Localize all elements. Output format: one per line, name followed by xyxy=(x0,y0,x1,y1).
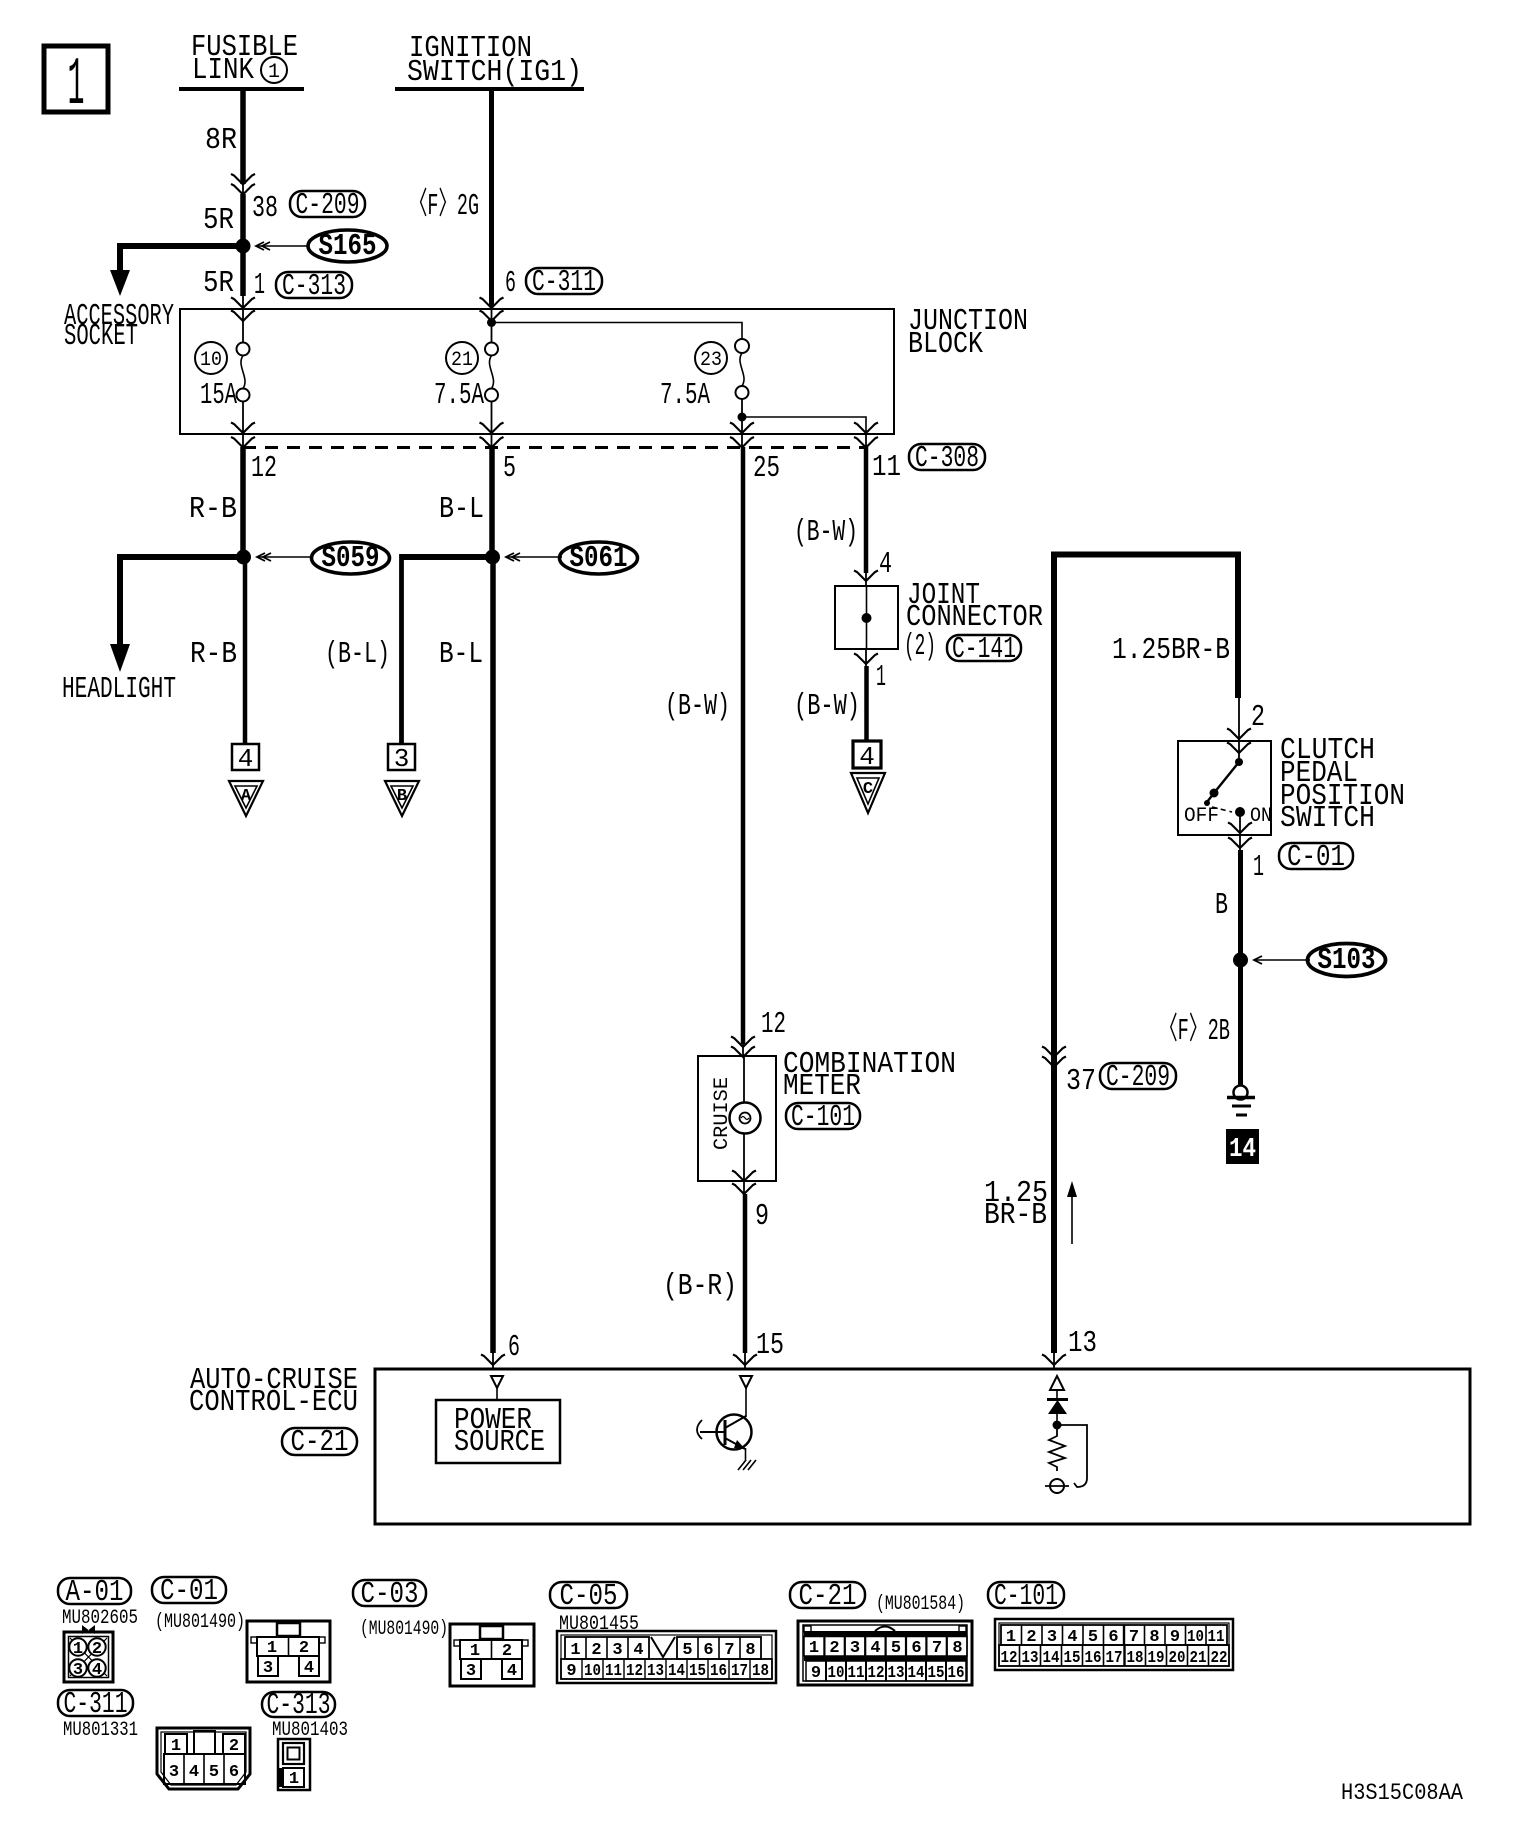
svg-text:3: 3 xyxy=(394,744,410,774)
wire to ECU pin 13 xyxy=(1042,1326,1097,1369)
label C-03 xyxy=(353,1577,448,1641)
svg-text:(B-L): (B-L) xyxy=(325,637,390,672)
svg-text:2: 2 xyxy=(92,1640,102,1659)
svg-text:13: 13 xyxy=(1068,1326,1097,1361)
svg-text:10: 10 xyxy=(200,349,222,372)
svg-text:21: 21 xyxy=(1190,1649,1207,1668)
splice label S059 xyxy=(257,541,390,576)
svg-text:12: 12 xyxy=(868,1664,885,1683)
junction node on ignition feed xyxy=(487,318,742,339)
svg-text:6: 6 xyxy=(508,1330,520,1365)
svg-text:S061: S061 xyxy=(570,541,628,576)
svg-text:B-L: B-L xyxy=(439,492,484,527)
label C-01 bottom xyxy=(152,1574,245,1634)
svg-text:12: 12 xyxy=(761,1007,786,1042)
label C-101 bottom xyxy=(988,1579,1064,1614)
svg-text:18: 18 xyxy=(752,1662,769,1681)
svg-text:C-05: C-05 xyxy=(560,1579,618,1614)
svg-text:7: 7 xyxy=(724,1641,734,1660)
svg-text:2: 2 xyxy=(1251,700,1265,735)
svg-text:C-101: C-101 xyxy=(791,1100,855,1135)
svg-text:C-141: C-141 xyxy=(952,632,1016,667)
connector crossing C-209 pin 38 chevrons xyxy=(231,174,278,226)
svg-text:8: 8 xyxy=(1149,1628,1159,1647)
svg-text:5: 5 xyxy=(1088,1628,1098,1647)
fuse 21 7.5A xyxy=(434,322,498,433)
svg-text:4: 4 xyxy=(1067,1628,1077,1647)
svg-text:15: 15 xyxy=(1064,1649,1081,1668)
svg-text:BR-B: BR-B xyxy=(984,1198,1047,1233)
svg-text:C-311: C-311 xyxy=(64,1687,128,1722)
svg-text:CONTROL-ECU: CONTROL-ECU xyxy=(189,1385,358,1420)
svg-text:3: 3 xyxy=(850,1639,860,1658)
svg-text:6: 6 xyxy=(505,266,516,301)
svg-text:12: 12 xyxy=(626,1662,643,1681)
svg-text:B: B xyxy=(397,787,407,806)
svg-text:16: 16 xyxy=(948,1664,965,1683)
wire A junction block entry chevrons xyxy=(231,295,255,342)
svg-text:8R: 8R xyxy=(205,123,237,158)
svg-text:6: 6 xyxy=(1108,1628,1118,1647)
svg-text:7: 7 xyxy=(1129,1628,1139,1647)
label C-21 bottom xyxy=(790,1579,965,1616)
svg-text:R-B: R-B xyxy=(190,637,237,672)
label C-01 xyxy=(1279,840,1353,875)
svg-text:R-B: R-B xyxy=(189,492,237,527)
svg-text:MU801455: MU801455 xyxy=(559,1613,639,1636)
svg-text:A-01: A-01 xyxy=(66,1575,124,1610)
svg-text:9: 9 xyxy=(755,1199,769,1234)
connector C-101 xyxy=(995,1619,1233,1670)
wire (B-L) branch to pin 3 xyxy=(325,554,492,744)
frame number box 1 xyxy=(44,46,108,124)
svg-text:C-03: C-03 xyxy=(361,1577,419,1612)
wire ignition switch 2G xyxy=(492,89,517,307)
wire 5R lower xyxy=(203,246,265,303)
cruise indicator lamp xyxy=(730,1057,761,1181)
svg-text:(MU801490): (MU801490) xyxy=(360,1618,448,1641)
label IGNITION SWITCH(IG1) xyxy=(395,31,584,90)
ECU pin 6 internal terminal xyxy=(491,1376,503,1388)
svg-text:11: 11 xyxy=(1208,1628,1225,1647)
fuse 10 15A xyxy=(195,342,250,433)
svg-text:2: 2 xyxy=(502,1642,512,1661)
node S103 xyxy=(1233,953,1248,968)
svg-text:12: 12 xyxy=(251,451,277,486)
terminal box 3 (circuit B) xyxy=(388,744,415,774)
svg-text:4: 4 xyxy=(189,1763,199,1782)
svg-text:8: 8 xyxy=(952,1639,962,1658)
svg-text:(B-W): (B-W) xyxy=(665,689,730,724)
svg-text:25: 25 xyxy=(753,451,780,486)
svg-text:SOURCE: SOURCE xyxy=(454,1425,545,1460)
label C-21 xyxy=(282,1425,357,1460)
svg-text:1: 1 xyxy=(1253,850,1264,885)
meter exit chevrons pin 9 xyxy=(732,1171,769,1235)
wire headlight branch xyxy=(62,554,243,707)
svg-text:3: 3 xyxy=(263,1659,273,1678)
svg-text:4: 4 xyxy=(304,1659,314,1678)
resistor R1 xyxy=(1049,1429,1065,1471)
svg-text:1: 1 xyxy=(809,1639,819,1658)
svg-text:11: 11 xyxy=(872,450,901,485)
wire accessory socket branch xyxy=(64,243,243,354)
svg-text:MU802605: MU802605 xyxy=(62,1607,138,1630)
svg-text:1: 1 xyxy=(171,1737,181,1756)
clutch pedal position switch entry pin 2 xyxy=(1227,697,1265,762)
label A-01 xyxy=(58,1575,138,1630)
ground symbol 14 xyxy=(1226,1086,1259,1166)
label C-311 xyxy=(526,265,602,300)
svg-text:4: 4 xyxy=(879,547,892,582)
svg-text:1: 1 xyxy=(267,1639,277,1658)
svg-text:1: 1 xyxy=(470,1642,480,1661)
svg-text:C-209: C-209 xyxy=(296,188,360,223)
value label 1.25 BR-B with flow arrow xyxy=(984,1176,1077,1244)
svg-text:A: A xyxy=(241,787,252,806)
svg-text:C-01: C-01 xyxy=(160,1574,218,1609)
wire (B-R) to ECU pin 15 xyxy=(663,1194,784,1369)
svg-text:9: 9 xyxy=(566,1662,576,1681)
svg-text:(B-W): (B-W) xyxy=(794,515,858,550)
splice label S103 xyxy=(1254,943,1386,978)
transistor Q1 xyxy=(697,1388,756,1470)
connector crossing C-209 pin 37 chevrons xyxy=(1042,1047,1096,1100)
wire B-L trunk to ECU pin 6 xyxy=(439,557,520,1369)
svg-text:14: 14 xyxy=(1043,1649,1060,1668)
svg-text:1: 1 xyxy=(73,1640,83,1659)
combination meter xyxy=(698,1047,956,1181)
svg-text:1: 1 xyxy=(1006,1628,1016,1647)
svg-text:1.25BR-B: 1.25BR-B xyxy=(1112,633,1230,668)
svg-text:〈F〉2B: 〈F〉2B xyxy=(1159,1013,1230,1049)
svg-text:20: 20 xyxy=(1169,1649,1186,1668)
svg-text:13: 13 xyxy=(1022,1649,1039,1668)
power source block xyxy=(436,1388,560,1463)
svg-text:3: 3 xyxy=(1047,1628,1057,1647)
node internal pull-up xyxy=(1053,1421,1062,1430)
svg-text:17: 17 xyxy=(731,1662,748,1681)
wire B to ground xyxy=(1159,850,1241,1086)
svg-text:11: 11 xyxy=(605,1662,622,1681)
svg-text:38: 38 xyxy=(252,191,278,226)
connector C-01 xyxy=(247,1621,330,1682)
svg-text:15: 15 xyxy=(928,1664,945,1683)
wire (B-W) to combination meter xyxy=(665,447,786,1057)
svg-text:4: 4 xyxy=(633,1641,643,1660)
svg-text:22: 22 xyxy=(1211,1649,1228,1668)
wire internal branch xyxy=(1057,1425,1087,1487)
svg-text:5: 5 xyxy=(891,1639,901,1658)
svg-text:13: 13 xyxy=(888,1664,905,1683)
svg-text:4: 4 xyxy=(238,744,254,774)
svg-text:10: 10 xyxy=(584,1662,601,1681)
fuse 23 7.5A xyxy=(660,339,749,433)
svg-text:6: 6 xyxy=(911,1639,921,1658)
svg-text:SWITCH: SWITCH xyxy=(1280,801,1375,836)
svg-text:14: 14 xyxy=(908,1664,925,1683)
svg-text:B-L: B-L xyxy=(439,637,483,672)
svg-text:〈F〉2G: 〈F〉2G xyxy=(409,188,479,224)
svg-text:C-21: C-21 xyxy=(799,1579,857,1614)
svg-text:S059: S059 xyxy=(322,541,380,576)
svg-text:9: 9 xyxy=(811,1664,821,1683)
svg-text:LINK: LINK xyxy=(192,53,254,88)
svg-text:14: 14 xyxy=(1229,1135,1256,1165)
svg-text:13: 13 xyxy=(647,1662,664,1681)
svg-text:7.5A: 7.5A xyxy=(434,378,484,413)
svg-text:METER: METER xyxy=(783,1069,861,1104)
svg-text:S165: S165 xyxy=(319,229,377,264)
svg-text:4: 4 xyxy=(870,1639,880,1658)
svg-text:7: 7 xyxy=(932,1639,942,1658)
terminal box 4 (circuit A) xyxy=(232,744,259,774)
svg-text:C-209: C-209 xyxy=(1106,1060,1170,1095)
svg-text:17: 17 xyxy=(1106,1649,1123,1668)
svg-text:21: 21 xyxy=(451,349,473,372)
svg-text:(MU801490): (MU801490) xyxy=(155,1611,245,1634)
svg-text:HEADLIGHT: HEADLIGHT xyxy=(62,672,176,707)
destination triangle C xyxy=(851,773,885,813)
connector C-313 xyxy=(278,1739,310,1790)
svg-text:MU801331: MU801331 xyxy=(63,1719,138,1742)
connector C-03 xyxy=(450,1624,534,1686)
diode D1 xyxy=(1047,1390,1068,1424)
svg-text:(2): (2) xyxy=(904,629,936,664)
connector C-311 xyxy=(157,1728,250,1789)
label C-308 xyxy=(909,441,985,476)
svg-text:2: 2 xyxy=(1026,1628,1036,1647)
wire B-L upper xyxy=(439,447,492,557)
wire R-B lower to pin 4 xyxy=(190,557,245,744)
svg-text:(MU801584): (MU801584) xyxy=(876,1593,965,1616)
svg-text:SOCKET: SOCKET xyxy=(64,319,138,354)
terminal circle xyxy=(1045,1479,1069,1493)
label C-313 xyxy=(276,269,352,304)
svg-text:2: 2 xyxy=(829,1639,839,1658)
connector C-21 xyxy=(798,1621,972,1685)
svg-text:C-313: C-313 xyxy=(282,269,346,304)
svg-text:C: C xyxy=(863,780,873,799)
auto-cruise control ECU box xyxy=(189,1363,1470,1524)
svg-text:3: 3 xyxy=(169,1763,179,1782)
wire 5R upper xyxy=(203,194,243,246)
svg-text:C-21: C-21 xyxy=(291,1425,349,1460)
svg-text:2: 2 xyxy=(591,1641,601,1660)
svg-text:23: 23 xyxy=(700,349,722,372)
svg-text:8: 8 xyxy=(745,1641,755,1660)
svg-text:5: 5 xyxy=(682,1641,692,1660)
destination triangle B xyxy=(385,781,419,816)
connector A-01 xyxy=(64,1625,113,1682)
label C-209 lower xyxy=(1100,1060,1176,1095)
svg-text:5: 5 xyxy=(503,451,516,486)
ECU pin 15 internal terminal xyxy=(740,1376,752,1388)
destination triangle A xyxy=(229,781,263,816)
svg-text:2: 2 xyxy=(229,1737,239,1756)
svg-text:15A: 15A xyxy=(200,378,237,413)
junction block connector dashed line xyxy=(243,446,866,449)
svg-text:15: 15 xyxy=(689,1662,706,1681)
svg-text:BLOCK: BLOCK xyxy=(908,327,983,362)
junction block xyxy=(180,304,1028,434)
svg-text:1: 1 xyxy=(68,47,85,124)
label C-311 bottom xyxy=(58,1687,138,1742)
svg-text:C-313: C-313 xyxy=(267,1688,331,1723)
svg-text:3: 3 xyxy=(73,1661,83,1680)
label C-313 bottom xyxy=(262,1688,348,1742)
clutch pedal position switch xyxy=(1178,733,1405,836)
label C-141 xyxy=(947,632,1021,667)
junction node below fuse 23 xyxy=(738,413,867,434)
svg-text:SWITCH(IG1): SWITCH(IG1) xyxy=(407,55,582,90)
svg-text:4: 4 xyxy=(859,742,875,772)
svg-text:C-101: C-101 xyxy=(994,1579,1058,1614)
svg-text:10: 10 xyxy=(828,1664,845,1683)
svg-text:16: 16 xyxy=(1085,1649,1102,1668)
splice label S061 xyxy=(506,541,638,576)
pin labels below junction block xyxy=(251,450,901,486)
svg-text:3: 3 xyxy=(466,1662,476,1681)
svg-text:H3S15C08AA: H3S15C08AA xyxy=(1341,1780,1463,1806)
svg-text:5R: 5R xyxy=(203,266,234,301)
svg-text:16: 16 xyxy=(710,1662,727,1681)
joint connector (2) C-141 xyxy=(835,578,1043,664)
splice label S165 xyxy=(256,229,387,264)
svg-text:2: 2 xyxy=(299,1639,309,1658)
clutch switch exit pin 1 xyxy=(1228,814,1264,885)
svg-text:15: 15 xyxy=(756,1328,784,1363)
svg-text:7.5A: 7.5A xyxy=(660,378,710,413)
junction block exit chevrons xyxy=(231,423,878,449)
svg-text:9: 9 xyxy=(1170,1628,1180,1647)
svg-text:3: 3 xyxy=(612,1641,622,1660)
svg-text:14: 14 xyxy=(668,1662,685,1681)
label C-101 xyxy=(786,1100,860,1135)
node S059 xyxy=(236,550,251,565)
svg-text:6: 6 xyxy=(229,1763,239,1782)
svg-text:1: 1 xyxy=(268,61,280,84)
svg-text:19: 19 xyxy=(1148,1649,1165,1668)
svg-text:C-01: C-01 xyxy=(1287,840,1345,875)
svg-text:11: 11 xyxy=(848,1664,865,1683)
svg-text:ON: ON xyxy=(1250,805,1272,828)
wire B junction block entry chevrons xyxy=(480,298,504,323)
svg-text:1: 1 xyxy=(876,660,886,695)
node S165 xyxy=(236,239,251,254)
svg-text:S103: S103 xyxy=(1318,943,1376,978)
svg-text:37: 37 xyxy=(1066,1064,1096,1099)
svg-text:C-311: C-311 xyxy=(532,265,596,300)
connector C-05 xyxy=(557,1631,776,1683)
svg-text:5: 5 xyxy=(209,1763,219,1782)
svg-text:4: 4 xyxy=(92,1661,102,1680)
wire fusible link 8R xyxy=(205,89,243,184)
wire R-B upper xyxy=(189,447,243,557)
svg-text:(B-W): (B-W) xyxy=(794,689,860,724)
svg-text:1: 1 xyxy=(254,268,265,303)
terminal box 4 (circuit C) xyxy=(853,741,881,772)
svg-text:C-308: C-308 xyxy=(915,441,979,476)
svg-text:6: 6 xyxy=(703,1641,713,1660)
svg-text:1: 1 xyxy=(570,1641,580,1660)
svg-text:1: 1 xyxy=(289,1770,299,1789)
wire 1.25BR-B trunk to clutch switch xyxy=(1054,555,1238,1354)
svg-text:12: 12 xyxy=(1001,1649,1018,1668)
svg-text:10: 10 xyxy=(1187,1628,1204,1647)
ECU pin 13 internal terminal xyxy=(1050,1376,1064,1390)
svg-text:OFF: OFF xyxy=(1184,805,1219,828)
node S061 xyxy=(485,550,500,565)
svg-text:18: 18 xyxy=(1127,1649,1144,1668)
label C-05 xyxy=(550,1579,639,1636)
label FUSIBLE LINK 1 xyxy=(179,30,304,89)
svg-text:5R: 5R xyxy=(203,203,234,238)
wire (B-W) pin 11 to joint connector xyxy=(794,447,892,586)
svg-text:(B-R): (B-R) xyxy=(663,1269,737,1304)
svg-text:B: B xyxy=(1215,888,1228,923)
label C-209 xyxy=(290,188,365,223)
svg-text:4: 4 xyxy=(507,1662,517,1681)
wire (B-W) joint connector pin 1 down xyxy=(794,649,886,741)
